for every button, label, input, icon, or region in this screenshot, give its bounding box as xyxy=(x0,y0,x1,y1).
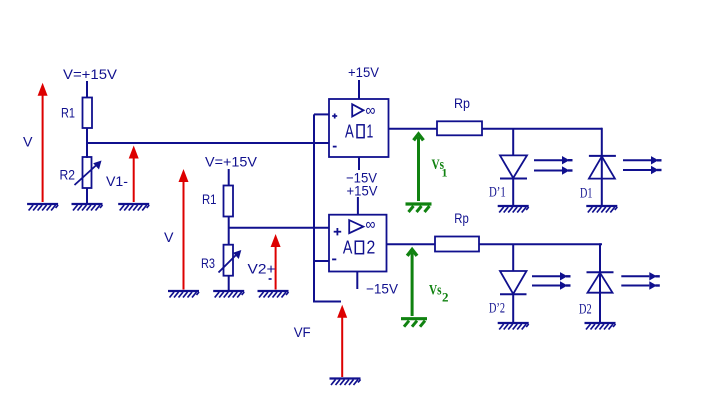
light arrows from D'1 xyxy=(534,156,573,175)
wire Rp to diodes (lower row) xyxy=(479,243,602,245)
photodiode D'2 xyxy=(500,271,527,294)
ground (under V2+ arrow) xyxy=(258,291,289,298)
svg-text:V=+15V: V=+15V xyxy=(205,154,258,170)
potentiometer R2 xyxy=(75,157,102,188)
svg-text:V: V xyxy=(23,134,33,150)
light arrows from D1 xyxy=(623,156,662,174)
voltage arrow Vs1 (green) xyxy=(412,131,425,201)
ground (green, Vs1) xyxy=(406,204,432,212)
svg-text:V1-: V1- xyxy=(106,173,128,189)
voltage arrow V (left) xyxy=(38,83,48,202)
voltage arrow V (middle) xyxy=(179,169,189,290)
LED D1 xyxy=(589,156,616,179)
wire R3 to ground xyxy=(228,276,230,291)
svg-text:V2+: V2+ xyxy=(248,261,276,277)
op-amp U1 xyxy=(329,99,389,157)
wire R1 to node V1 xyxy=(86,128,88,158)
wire Rp to diodes (upper row) xyxy=(482,128,602,130)
svg-text:1: 1 xyxy=(367,121,374,142)
ground (VF) xyxy=(330,379,361,386)
wire U2 to -15V supply xyxy=(356,272,358,290)
svg-text:D’2: D’2 xyxy=(489,300,505,316)
svg-text:R3: R3 xyxy=(201,255,215,271)
svg-text:+15V: +15V xyxy=(347,183,379,199)
light arrows from D'2 xyxy=(532,272,571,290)
wire U1 non-inverting input stub xyxy=(314,113,329,115)
svg-text:−15V: −15V xyxy=(366,281,399,297)
node VF bus wire xyxy=(314,114,341,301)
wire down to D1 xyxy=(601,128,603,206)
svg-text:∞: ∞ xyxy=(366,217,376,234)
ground (green, Vs2) xyxy=(401,319,427,327)
svg-text:+15V: +15V xyxy=(348,64,380,80)
voltage arrow VF xyxy=(337,305,347,377)
ground (D2) xyxy=(585,323,616,330)
wire R2 to ground xyxy=(86,188,88,204)
photodiode D'1 xyxy=(500,155,527,178)
wire D'2 to ground xyxy=(512,294,514,323)
svg-text:V=+15V: V=+15V xyxy=(63,66,118,82)
voltage arrow V1- xyxy=(129,146,139,203)
label Vs2 xyxy=(429,283,449,305)
ground (left divider) xyxy=(72,204,103,211)
svg-text:1: 1 xyxy=(442,166,448,180)
wire +15V supply to U2 xyxy=(357,197,359,215)
wire node V2 to op-amp U2 non-inverting input xyxy=(229,227,329,229)
wire U2 output xyxy=(387,243,436,245)
minus tick under V2+ label xyxy=(269,278,272,280)
svg-text:2: 2 xyxy=(442,290,449,305)
svg-text:A: A xyxy=(345,121,354,142)
ground (under V arrow, middle) xyxy=(168,291,199,298)
svg-text:R2: R2 xyxy=(60,167,76,183)
wire D'1 to ground xyxy=(512,179,514,207)
svg-text:R1: R1 xyxy=(202,191,217,207)
wire R1 to node V2 xyxy=(228,217,230,246)
ground (D'1) xyxy=(498,206,529,213)
ground (middle divider) xyxy=(213,291,244,298)
light arrows from D2 xyxy=(621,272,660,290)
svg-text:R1: R1 xyxy=(61,105,75,121)
potentiometer R3 xyxy=(219,245,242,276)
resistor Rp (upper) xyxy=(437,121,482,135)
wire U2 inverting input stub xyxy=(314,260,329,262)
voltage arrow Vs2 (green) xyxy=(406,247,419,316)
wire junction down to D'2 xyxy=(512,244,514,271)
svg-text:D2: D2 xyxy=(579,301,592,317)
label A[]1 of U1 xyxy=(345,121,373,142)
svg-text:D’1: D’1 xyxy=(489,185,506,201)
ground (under V1- arrow) xyxy=(118,204,149,211)
op-amp U2 xyxy=(329,215,387,272)
svg-text:V: V xyxy=(164,229,174,245)
label A[]2 of U2 xyxy=(343,237,375,258)
wire down to D2 xyxy=(599,243,601,323)
wire supply to R1 (left divider) xyxy=(86,81,88,98)
wire node V1 to op-amp U1 inverting input xyxy=(87,142,329,144)
label Vs1 xyxy=(432,157,448,180)
wire U1 to -15V supply xyxy=(358,157,360,170)
resistor R1 (left divider) xyxy=(83,98,93,129)
ground (D1) xyxy=(586,206,617,213)
svg-text:D1: D1 xyxy=(580,186,592,202)
voltage arrow V2+ xyxy=(271,234,281,290)
resistor Rp (lower) xyxy=(435,237,479,252)
svg-text:∞: ∞ xyxy=(366,103,376,120)
wire U1 output xyxy=(389,128,438,130)
wire junction down to D'1 xyxy=(512,129,514,156)
LED D2 xyxy=(587,272,614,293)
resistor R1 (middle divider) xyxy=(224,186,234,217)
wire +15V supply to U1 xyxy=(358,80,360,99)
ground (D'2) xyxy=(498,323,529,330)
svg-text:Rp: Rp xyxy=(454,95,470,111)
svg-text:Rp: Rp xyxy=(454,210,469,226)
svg-text:Vs: Vs xyxy=(429,283,442,299)
svg-text:2: 2 xyxy=(367,237,376,258)
svg-text:A: A xyxy=(343,237,353,258)
svg-text:VF: VF xyxy=(294,324,311,340)
wire supply to R1 (middle divider) xyxy=(228,169,230,186)
ground (under V arrow, left) xyxy=(27,204,58,211)
